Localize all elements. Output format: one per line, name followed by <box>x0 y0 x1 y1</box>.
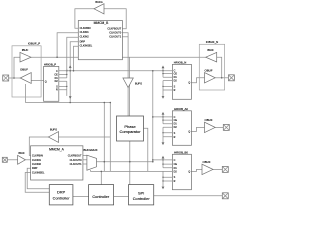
wire BUFG C output to Phase Comparator <box>127 88 129 117</box>
wire MMCM_B CLKIN1 from IBUF_P line <box>57 33 78 58</box>
wire MMCM_A DRP elbow to DRP controller <box>27 168 49 189</box>
svg-text:R: R <box>56 89 58 92</box>
wire BUFGMUX output <box>97 161 153 163</box>
wire SPI controller to bottom right pad <box>154 195 223 197</box>
svg-text:CE: CE <box>174 163 178 166</box>
wire OBUF mid to pad <box>215 126 223 128</box>
svg-text:IBUF: IBUF <box>18 151 25 155</box>
op-block SPI Controller <box>129 185 154 205</box>
wire OBUF bottom to pad <box>213 168 222 170</box>
pad mid right <box>223 124 229 130</box>
wire HRIOB_B0 C stub <box>153 159 173 161</box>
svg-text:DRP: DRP <box>32 166 38 170</box>
vcc arrow on riser <box>69 65 72 68</box>
wire left pad riser to IBUF_P input <box>14 57 20 78</box>
wire MMCM_B CLKINSEL riser <box>74 46 79 71</box>
svg-text:CLKFBIN: CLKFBIN <box>80 26 91 30</box>
svg-text:IOBUF_N: IOBUF_N <box>206 40 219 44</box>
svg-text:OBUF: OBUF <box>202 160 210 164</box>
svg-text:CLKFBOUT: CLKFBOUT <box>107 26 121 30</box>
svg-text:CLKIN1: CLKIN1 <box>32 158 42 162</box>
svg-text:MMCM_A: MMCM_A <box>49 147 64 151</box>
IOB group IOBUF_N <box>199 40 224 90</box>
buffer OBUF_N <box>204 69 215 83</box>
ground tie HRIOB_P <box>66 81 68 96</box>
wire HRIOB_P pin stubs <box>59 75 67 90</box>
wire HRIOB_N pin stubs <box>163 74 172 90</box>
wire BUFG output to MMCM_B CLKFBIN <box>75 9 94 29</box>
svg-text:OBUF: OBUF <box>20 67 28 71</box>
svg-text:Controller: Controller <box>92 194 110 199</box>
svg-text:Q: Q <box>188 170 190 173</box>
wire Controller top riser <box>100 171 102 184</box>
wire IBUF to MMCM_A CLKIN1 <box>25 159 30 161</box>
buffer IBUF_P <box>20 48 31 62</box>
buffer BUFG top feedback <box>94 0 104 14</box>
svg-text:DRP: DRP <box>80 39 86 43</box>
wire MMCM_B CLKOUT0 down to BUFG C <box>122 33 128 78</box>
op-block Controller <box>89 185 114 205</box>
svg-text:CE: CE <box>174 119 178 122</box>
svg-text:HRIOB_N: HRIOB_N <box>174 61 186 65</box>
wire HRIOB_B0 pin stubs <box>163 164 172 181</box>
svg-text:CLKFBIN: CLKFBIN <box>32 153 43 157</box>
pad right N <box>228 75 234 81</box>
wire HRIOB_A0 pin stubs <box>163 120 172 137</box>
wire BUFG A input riser <box>109 103 111 172</box>
pad bottom left <box>2 157 7 162</box>
svg-text:Q: Q <box>188 130 190 133</box>
register HRIOB_N <box>162 61 192 100</box>
wire clock net horizontal mid <box>25 102 110 104</box>
svg-text:OBUF: OBUF <box>204 69 212 73</box>
wire MMCM_A CLKINSEL elbow to DRP controller <box>25 173 49 193</box>
wire HRIOB_A0 Q to OBUF <box>191 127 204 131</box>
wire MMCM_B CLKFBOUT feedback to BUFG input <box>104 9 126 29</box>
buffer BUFG A <box>48 127 58 142</box>
svg-text:HRIOB_B0: HRIOB_B0 <box>174 151 188 155</box>
wire HRIOB_A0 C stub <box>153 116 173 118</box>
svg-text:CLKIN2: CLKIN2 <box>80 35 90 39</box>
wire OBUF_N to right pad <box>215 77 228 79</box>
op-block DRP Controller <box>49 185 73 205</box>
mux BUFGMUX <box>84 148 98 170</box>
wire BUFG A input <box>59 136 111 138</box>
buffer BUFG center <box>123 78 142 88</box>
wire HRIOB_N Q to OBUF_N <box>191 78 204 83</box>
wire MMCM_B DRP riser <box>70 42 78 103</box>
svg-text:CLKIN2: CLKIN2 <box>32 162 42 166</box>
svg-text:CLKINSEL: CLKINSEL <box>32 171 45 175</box>
wire MMCM_A CLKFBOUT to BUFGMUX <box>83 154 87 156</box>
wire pad to IBUF bottom left <box>8 159 18 161</box>
svg-text:HRIOB_A0: HRIOB_A0 <box>174 107 188 111</box>
wire control horizontal <box>90 170 163 172</box>
svg-text:BUFG: BUFG <box>95 0 102 4</box>
pad left <box>3 75 9 81</box>
svg-text:Q: Q <box>188 82 190 85</box>
vcc tie HRIOB_P <box>66 69 68 78</box>
wire BUFG A output to MMCM_A CLKFBIN <box>29 137 48 155</box>
svg-text:MMCM_B: MMCM_B <box>94 21 109 25</box>
svg-text:CLKFBOUT: CLKFBOUT <box>68 153 82 157</box>
svg-text:CLKIN1: CLKIN1 <box>80 30 90 34</box>
svg-text:BUFGMUX: BUFGMUX <box>84 148 98 152</box>
wire MMCM_B CLKIN2 from clock bus <box>67 37 79 71</box>
svg-text:Controller: Controller <box>133 196 151 201</box>
wire left pad to OBUF_P <box>9 77 21 79</box>
wire clock net bridge down to mux output <box>103 103 105 172</box>
op-block MMCM_B <box>78 21 122 60</box>
svg-text:Q: Q <box>45 80 47 83</box>
svg-text:CLKOUT1: CLKOUT1 <box>109 34 122 38</box>
svg-text:CLKOUT0: CLKOUT0 <box>70 158 83 162</box>
wire HRIOB_B0 Q to OBUF <box>191 169 202 171</box>
vcc tie HRIOB_N <box>162 68 164 77</box>
wire Controller to SPI controller <box>114 195 129 197</box>
svg-text:IBUF: IBUF <box>207 48 214 52</box>
svg-text:R: R <box>174 136 176 139</box>
svg-text:Controller: Controller <box>53 196 71 201</box>
wire MMCM_A CLKOUT0 to BUFGMUX <box>83 159 87 161</box>
vcc tie HRIOB_A0 <box>162 114 164 124</box>
buffer OBUF_P <box>20 67 31 83</box>
buffer IBUF_N <box>206 48 217 62</box>
op-block MMCM_A <box>31 146 83 180</box>
svg-text:OBUF: OBUF <box>204 118 212 122</box>
IOB group IOBUF_P <box>12 42 41 97</box>
svg-text:C: C <box>174 159 176 162</box>
svg-text:IBUF: IBUF <box>22 48 29 52</box>
wire DRP controller to Controller <box>73 195 89 197</box>
register HRIOB_A0 <box>162 107 192 145</box>
pad bottom right SPI <box>222 193 228 199</box>
svg-text:CLKOUT0: CLKOUT0 <box>109 30 122 34</box>
svg-text:Comparator: Comparator <box>119 129 141 134</box>
svg-text:IOBUF_P: IOBUF_P <box>28 42 40 46</box>
wire forwarded clock bus horizontal <box>59 70 173 72</box>
buffer IBUF bottom left <box>18 151 26 164</box>
svg-text:CE: CE <box>174 73 178 76</box>
buffer OBUF mid <box>204 118 215 132</box>
wire clock bus right riser <box>152 71 154 162</box>
wire MMCM_B CLKOUT1 stub <box>122 36 128 38</box>
wire comparator right stub down <box>144 128 148 171</box>
ground tie HRIOB_B0 <box>162 171 164 186</box>
wire IBUF_P output long line to IBUF_N <box>31 56 206 58</box>
buffer OBUF bottom <box>202 160 213 174</box>
wire OBUF_P tap riser <box>24 84 26 103</box>
svg-text:CLKINSEL: CLKINSEL <box>80 44 93 48</box>
svg-text:R: R <box>174 180 176 183</box>
svg-text:BUFG: BUFG <box>50 127 57 131</box>
svg-text:HRIOB_P: HRIOB_P <box>44 63 56 67</box>
junction dots <box>13 77 15 79</box>
wire return clock down into Phase Comparator <box>129 57 131 116</box>
svg-text:BUFG: BUFG <box>135 82 142 86</box>
wire MMCM_A CLKOUT1 to BUFGMUX <box>83 163 87 165</box>
pad bottom right row3 <box>222 166 228 172</box>
op-block Phase Comparator <box>117 116 144 141</box>
svg-text:R: R <box>174 89 176 92</box>
wire BUFGMUX select riser <box>89 170 91 171</box>
wire comparator output down to SPI controller <box>129 141 131 185</box>
svg-text:CLKOUT1: CLKOUT1 <box>70 162 83 166</box>
wire right pad riser to IBUF_N input <box>217 57 222 78</box>
ground tie HRIOB_N <box>162 81 164 97</box>
register HRIOB_B0 <box>162 151 192 190</box>
svg-text:DRP: DRP <box>57 189 66 194</box>
ground arrow on riser <box>69 96 72 99</box>
register HRIOB_P <box>44 63 72 102</box>
wire HRIOB_P Q to OBUF_P <box>31 80 43 82</box>
vcc tie HRIOB_B0 <box>162 158 164 168</box>
ground tie HRIOB_A0 <box>162 127 164 142</box>
